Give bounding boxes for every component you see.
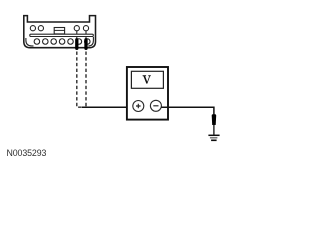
- pin lead from cavity A3: [76, 31, 78, 39]
- connector cavity B5: [68, 39, 74, 45]
- test probe P2 in cavity: [84, 38, 87, 50]
- voltmeter display window: [131, 71, 163, 88]
- connector center keyway tab: [54, 28, 64, 34]
- connector cavity A3 (upper-right circle 1): [74, 26, 79, 31]
- wire from negative terminal to ground: [161, 107, 214, 115]
- wire to voltmeter positive terminal: [82, 106, 134, 108]
- svg-text:N0035293: N0035293: [7, 148, 47, 158]
- connector cavity A4 (upper-right circle 2): [83, 26, 88, 31]
- voltmeter V label: [143, 75, 151, 83]
- connector cavity B1: [34, 39, 40, 45]
- ground symbol bar 2: [210, 137, 218, 139]
- ground symbol bar 3: [211, 139, 217, 141]
- minus symbol: [153, 105, 158, 107]
- ground lead: [213, 124, 215, 134]
- dashed test lead from probe P2: [85, 52, 87, 107]
- voltmeter negative terminal: [150, 100, 161, 111]
- connector cavity B2: [43, 39, 49, 45]
- connector cavity B6: [76, 39, 82, 45]
- plus symbol: [136, 104, 141, 109]
- connector cavity B3: [51, 39, 57, 45]
- voltmeter positive terminal: [133, 101, 144, 112]
- connector J1 housing outline: [24, 16, 96, 48]
- voltmeter V1 body: [127, 67, 168, 120]
- connector inner wall arc right: [88, 37, 93, 46]
- connector center rail bar: [30, 34, 94, 36]
- connector cavity A2 (upper-left circle 2): [38, 26, 43, 31]
- connector cavity B7: [85, 39, 91, 45]
- pin lead from cavity A4: [85, 31, 87, 39]
- connector inner wall arc left: [26, 38, 34, 46]
- connector cavity B4: [59, 39, 65, 45]
- ground symbol bar 1: [208, 134, 219, 136]
- keyway divider line: [54, 29, 64, 31]
- dashed test lead from probe P1: [77, 52, 82, 108]
- ground probe tip: [212, 114, 217, 125]
- test probe P1 in cavity: [75, 38, 78, 50]
- connector cavity A1 (upper-left circle 1): [30, 26, 35, 31]
